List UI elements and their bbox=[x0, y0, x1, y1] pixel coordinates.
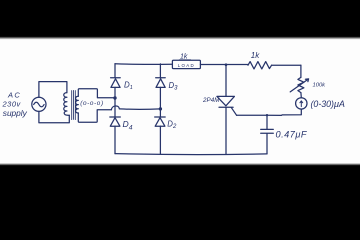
junction dot SCR anode tap bbox=[225, 63, 228, 66]
wire D3 to node B bbox=[159, 87, 161, 109]
transformer T1 primary coil bbox=[64, 93, 70, 116]
node B junction dot bbox=[159, 107, 162, 110]
svg-text:supply: supply bbox=[3, 108, 28, 118]
wire D4 to bottom rail bbox=[114, 126, 116, 154]
wire secondary top to bridge left node bbox=[78, 89, 115, 98]
wire D1 to node A bbox=[114, 87, 116, 97]
load resistor box bbox=[172, 60, 200, 68]
svg-text:1k: 1k bbox=[251, 51, 260, 60]
SCR Q1 triangle bbox=[217, 96, 235, 105]
svg-text:LOAD: LOAD bbox=[178, 63, 195, 68]
svg-text:2P4M: 2P4M bbox=[202, 97, 220, 104]
ammeter M1 bbox=[296, 98, 307, 109]
diode D4 bbox=[110, 116, 121, 118]
svg-text:(0-30)μA: (0-30)μA bbox=[311, 99, 345, 109]
sine symbol bbox=[34, 102, 44, 107]
SCR Q1 cathode wire bbox=[225, 107, 227, 154]
svg-text:(o-o-o): (o-o-o) bbox=[80, 100, 103, 107]
potentiometer R3 100k zigzag bbox=[298, 77, 304, 92]
wire D2 to bottom rail bbox=[159, 126, 161, 154]
potentiometer arrow bbox=[290, 79, 308, 92]
wire hop to bridge right node bbox=[119, 108, 160, 110]
wire meter down and left to gate bbox=[267, 109, 301, 115]
wire primary loop bottom bbox=[39, 111, 69, 122]
paper background bbox=[0, 37, 360, 165]
node A junction dot bbox=[113, 96, 116, 99]
SCR Q1 cathode bar bbox=[219, 106, 233, 108]
AC source V1 bbox=[32, 97, 46, 111]
transformer core bbox=[72, 90, 76, 119]
svg-text:100k: 100k bbox=[313, 83, 327, 89]
junction dot capacitor tap bbox=[266, 114, 268, 116]
wire gate segment bbox=[237, 114, 267, 116]
wire resistor to right corner bbox=[272, 64, 301, 66]
SCR Q1 anode wire bbox=[225, 65, 227, 97]
diode D1 bbox=[114, 64, 116, 78]
wire right rail down to pot bbox=[300, 65, 302, 77]
wire primary loop top bbox=[39, 82, 67, 98]
svg-text:0.47μF: 0.47μF bbox=[276, 129, 308, 139]
diode D2 bbox=[155, 116, 166, 118]
svg-text:AC: AC bbox=[7, 91, 21, 100]
capacitor C1 plates bbox=[261, 129, 274, 133]
wire load to SCR anode junction bbox=[200, 64, 248, 66]
wire top rail left bbox=[115, 63, 172, 66]
transformer T1 secondary coil bbox=[76, 96, 79, 113]
wire pot to meter bbox=[300, 93, 302, 98]
diode D3 bbox=[159, 64, 161, 78]
capacitor C1 lead top bbox=[266, 115, 268, 128]
capacitor C1 lead bottom bbox=[266, 134, 268, 154]
SCR Q1 gate lead bbox=[231, 108, 236, 116]
wire node A down bbox=[114, 98, 116, 117]
resistor R2 1k zigzag bbox=[248, 62, 272, 69]
wire node B down bbox=[159, 109, 161, 117]
wire secondary bottom to crossover bbox=[78, 110, 111, 123]
wire bottom rail bbox=[115, 153, 267, 156]
wire crossover hop over left rail bbox=[111, 106, 119, 110]
